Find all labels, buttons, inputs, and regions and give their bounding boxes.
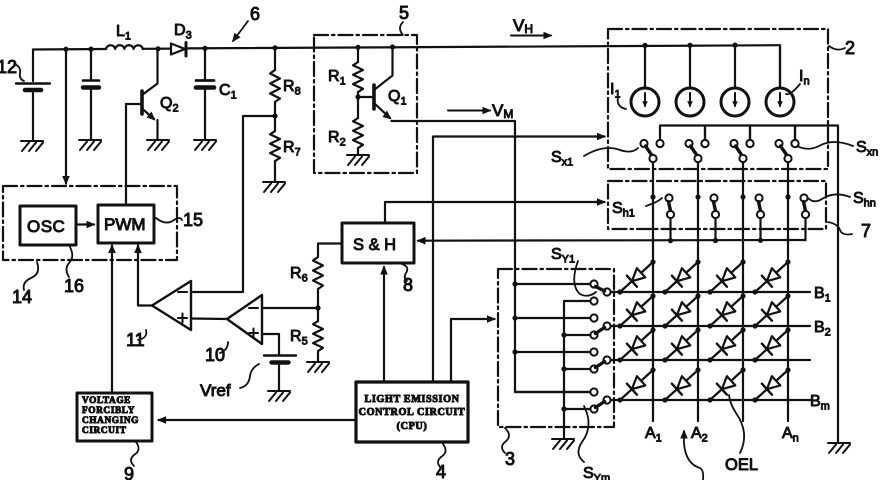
switch Sy4 (row Bm) [515, 391, 591, 393]
box 7 (sampling switch block, dash-dot) [608, 181, 826, 229]
svg-text:OSC: OSC [27, 217, 65, 236]
ground (row scan bus) [552, 439, 574, 449]
switch Sx3 [734, 115, 736, 117]
current source I2 [676, 88, 704, 116]
svg-text:Vref: Vref [200, 381, 231, 400]
svg-text:VOLTAGE: VOLTAGE [82, 396, 131, 406]
svg-text:3: 3 [505, 449, 515, 469]
svg-text:16: 16 [64, 276, 84, 296]
svg-text:PWM: PWM [104, 215, 146, 234]
switch Sx1 [644, 115, 646, 117]
block OSC [20, 206, 76, 245]
wire VH rail (boost output rail) [33, 45, 780, 49]
svg-text:2: 2 [845, 38, 855, 58]
node current source I1 rail junction [642, 43, 647, 48]
block PWM [98, 205, 154, 243]
ground (Q2 emitter) [147, 140, 169, 150]
label display panel leader arrow [683, 431, 685, 444]
box 5 (series regulator block, dash-dot) [314, 35, 417, 173]
diode D3 [171, 44, 185, 55]
OEL diode row B3 col An [755, 330, 788, 360]
column line A1 [652, 162, 654, 421]
current source I3 [721, 88, 749, 116]
transistor Q1 [372, 85, 376, 109]
node R8 top junction [272, 45, 277, 50]
wire block 9 to PWM [111, 246, 113, 394]
svg-text:12: 12 [0, 57, 17, 77]
wire OSC to PWM [78, 223, 94, 225]
wire CPU to S&H [383, 267, 385, 382]
wire row-switch ground bus [563, 301, 565, 438]
ground (R5) [307, 362, 329, 372]
svg-text:FORCIBLY: FORCIBLY [82, 406, 135, 416]
ground (Vref) [268, 391, 290, 401]
box 3 (row scan switch block, dash-dot) [498, 269, 614, 427]
wire PWM to Q2 base [125, 104, 127, 205]
svg-text:6: 6 [250, 4, 260, 24]
svg-text:10: 10 [205, 345, 225, 365]
OEL diode row B2 col A2 [665, 296, 698, 326]
wire VM: Q1 emitter to row-driver bus [392, 121, 591, 392]
node C1 top junction [202, 46, 207, 51]
OEL diode row B1 col A3 [710, 262, 743, 292]
current source In [766, 88, 794, 116]
ground (R7) [263, 182, 285, 192]
switch Sx2 [689, 115, 691, 117]
switch Sh3 [740, 194, 745, 199]
svg-text:S & H: S & H [353, 236, 396, 254]
block 4 light emission control circuit (CPU) [356, 382, 468, 442]
node R1/R2/base junction [355, 94, 360, 99]
OEL diode row Bm col A1 [620, 370, 653, 400]
transistor Q2 [140, 91, 144, 114]
node R5/R6 junction [315, 305, 320, 310]
OEL diode row B1 col An [755, 262, 788, 292]
wire rail corner into current source In [779, 45, 781, 88]
svg-text:7: 7 [861, 221, 871, 241]
ground (battery 12) [21, 141, 43, 151]
op-amp comparator 11 [152, 281, 191, 330]
wire sample bus to S&H input [418, 239, 806, 242]
node battery/OSC-feed junction [63, 47, 68, 52]
wire discharge bus to ground rail [660, 126, 838, 443]
switch Sy2 (row B2) [512, 315, 517, 320]
OEL diode row B3 col A3 [710, 330, 743, 360]
wire comparator 10 inverting input to R5/R6 node [262, 307, 318, 309]
OEL diode row Bm col An [755, 370, 788, 400]
ground (input filter cap) [79, 140, 101, 150]
OEL diode row B3 col A2 [665, 330, 698, 360]
battery 12 [32, 50, 34, 82]
node R8/R7 junction [272, 113, 277, 118]
inductor L1 [106, 45, 143, 49]
block S&H (sample and hold) 8 [342, 223, 414, 263]
box 2 (current source block, dash-dot) [608, 29, 828, 169]
node current source I2 rail junction [687, 43, 692, 48]
switch Sh4 [785, 194, 790, 199]
resistor R2 [357, 97, 359, 118]
column line An [787, 162, 789, 421]
switch Sx4 [779, 115, 781, 117]
battery Vref [264, 354, 296, 356]
OEL diode row B3 col A1 [620, 330, 653, 360]
node input cap junction [88, 47, 93, 52]
OEL diode row B1 col A1 [620, 262, 653, 292]
svg-text:LIGHT EMISSION: LIGHT EMISSION [364, 394, 459, 405]
resistor R6 [318, 244, 342, 258]
OEL diode row B2 col A1 [620, 296, 653, 326]
capacitor (input filter) [90, 49, 92, 79]
OEL diode row B2 col An [755, 296, 788, 326]
wire CPU to block 3 Sy control [451, 319, 492, 382]
capacitor C1 [204, 48, 206, 79]
switch Sy1 (row B1) [512, 281, 517, 286]
resistor R8 [274, 48, 276, 70]
svg-text:(CPU): (CPU) [397, 421, 428, 432]
wire comparator 11 output to PWM [138, 252, 152, 306]
OEL diode row B1 col A2 [665, 262, 698, 292]
label VM with arrow [448, 110, 490, 112]
svg-text:CHANGING: CHANGING [82, 416, 139, 426]
svg-text:OEL: OEL [725, 456, 758, 474]
node Q1 collector junction [390, 44, 395, 49]
wire CPU to block 2 Sx control [433, 137, 600, 383]
OEL diode row Bm col A3 [710, 370, 743, 400]
wire S&H gate to block 7 sample switches [385, 202, 600, 223]
column line A3 [742, 162, 744, 421]
OEL diode row B2 col A3 [710, 296, 743, 326]
svg-text:CONTROL CIRCUIT: CONTROL CIRCUIT [359, 407, 466, 418]
svg-text:15: 15 [183, 210, 203, 230]
wire comparator 10 output to comparator 11 non-inverting input [191, 317, 227, 320]
wire R8/R7 junction to comparator 11 inverting input [193, 116, 275, 292]
node current source I3 rail junction [732, 43, 737, 48]
column line A2 [697, 162, 699, 421]
op-amp comparator 10 [227, 295, 262, 344]
resistor R7 [274, 116, 276, 131]
node R1 top junction [355, 45, 360, 50]
switch Sy3 (row B3) [512, 349, 517, 354]
block 9 voltage forcibly changing circuit [77, 393, 152, 441]
svg-text:5: 5 [399, 3, 409, 23]
ground (discharge rail) [828, 443, 850, 453]
svg-text:4: 4 [436, 462, 446, 480]
svg-text:14: 14 [12, 287, 32, 307]
wire CPU to block 9 [159, 419, 357, 421]
box 14 (PWM controller block, dash-dot) [3, 186, 177, 260]
svg-text:CIRCUIT: CIRCUIT [82, 426, 127, 436]
svg-text:11: 11 [126, 330, 145, 350]
node Q2 collector junction [155, 46, 160, 51]
OEL diode row Bm col A2 [665, 370, 698, 400]
ground (C1) [194, 140, 216, 150]
current source I1 [631, 88, 659, 116]
wire battery node to block 14 (supply sense) [65, 49, 67, 183]
wire comparator 10 non-inverting input to Vref [262, 334, 279, 354]
switch Sh1 [650, 194, 655, 199]
resistor R5 [317, 308, 319, 321]
ground (R2) [347, 155, 369, 165]
switch Sh2 [695, 194, 700, 199]
svg-text:9: 9 [124, 464, 134, 480]
resistor R1 [357, 47, 359, 62]
